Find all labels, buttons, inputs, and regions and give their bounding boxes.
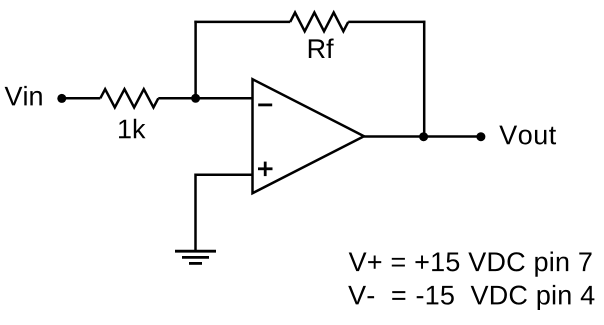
node Vout terminal bbox=[476, 132, 485, 141]
wire op-amp output to Vout terminal bbox=[364, 135, 481, 138]
wire non-inverting input down to ground bbox=[194, 173, 197, 251]
resistor Rf bbox=[290, 13, 348, 32]
op-amp U1 triangle bbox=[253, 79, 365, 193]
note V- supply line 2 bbox=[348, 285, 594, 310]
wire R1 to node A bbox=[158, 97, 195, 100]
label Vin bbox=[5, 86, 42, 106]
label Vout bbox=[499, 126, 556, 145]
resistor R1 1k bbox=[100, 89, 158, 107]
value label 1k bbox=[119, 119, 146, 139]
node Vin input terminal bbox=[57, 94, 66, 103]
note V+ supply line 1 bbox=[349, 252, 592, 277]
ground symbol bbox=[175, 251, 216, 263]
wire feedback top left segment bbox=[194, 21, 290, 24]
wire non-inverting input horizontal bbox=[196, 173, 253, 176]
node A junction at inverting input bbox=[191, 94, 200, 103]
wire feedback top right segment bbox=[348, 21, 425, 24]
wire Vin terminal to R1 bbox=[62, 97, 101, 100]
wire node A to op-amp inverting input bbox=[196, 97, 253, 100]
wire feedback down to output node bbox=[423, 21, 426, 137]
op-amp non-inverting input plus sign bbox=[258, 167, 273, 170]
node B output junction bbox=[419, 132, 428, 141]
wire node A up to feedback loop bbox=[194, 21, 197, 99]
label Rf bbox=[309, 38, 334, 58]
op-amp inverting input minus sign bbox=[258, 104, 272, 107]
